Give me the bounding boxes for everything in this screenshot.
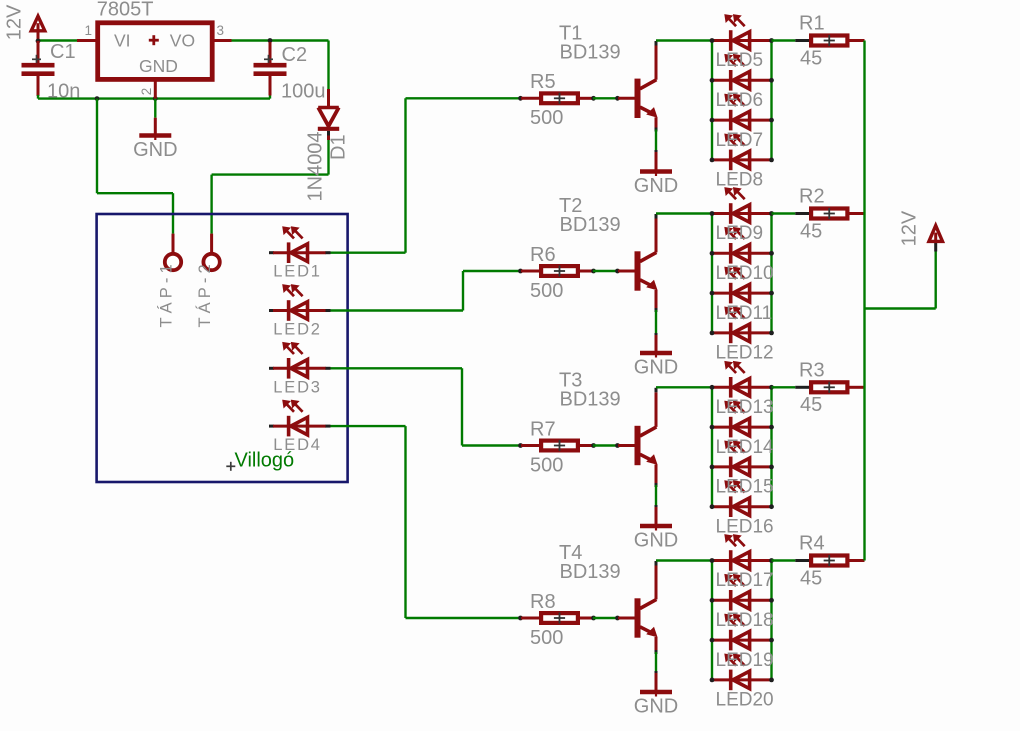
svg-text:LED14: LED14 <box>716 437 775 458</box>
svg-text:LED2: LED2 <box>273 321 321 339</box>
svg-text:LED18: LED18 <box>716 610 774 631</box>
svg-text:LED16: LED16 <box>716 516 774 537</box>
svg-text:12V: 12V <box>899 210 921 246</box>
svg-text:12V: 12V <box>4 4 26 40</box>
svg-text:VO: VO <box>170 30 195 50</box>
svg-text:BD139: BD139 <box>560 561 621 583</box>
svg-text:R1: R1 <box>799 13 825 35</box>
svg-text:100u: 100u <box>281 81 326 103</box>
svg-text:R5: R5 <box>530 71 556 93</box>
svg-text:GND: GND <box>139 56 178 76</box>
svg-text:TÁP-1: TÁP-1 <box>157 260 176 327</box>
svg-text:BD139: BD139 <box>560 389 621 411</box>
svg-text:45: 45 <box>800 567 822 589</box>
svg-text:LED1: LED1 <box>273 263 321 281</box>
svg-text:R2: R2 <box>799 186 825 208</box>
svg-text:R6: R6 <box>530 244 556 266</box>
svg-text:45: 45 <box>800 394 822 416</box>
svg-text:2: 2 <box>139 88 154 96</box>
svg-text:GND: GND <box>133 139 177 161</box>
svg-text:7805T: 7805T <box>97 0 154 21</box>
svg-text:1: 1 <box>84 23 92 38</box>
svg-text:45: 45 <box>800 220 822 242</box>
svg-text:VI: VI <box>114 30 131 50</box>
svg-text:500: 500 <box>530 454 563 476</box>
svg-text:BD139: BD139 <box>560 214 621 236</box>
svg-text:10n: 10n <box>47 81 80 103</box>
svg-text:R8: R8 <box>530 591 556 613</box>
svg-text:LED9: LED9 <box>716 223 764 244</box>
svg-text:R3: R3 <box>799 359 825 381</box>
svg-text:C1: C1 <box>50 41 76 63</box>
svg-text:GND: GND <box>634 356 678 378</box>
svg-text:LED20: LED20 <box>716 690 774 711</box>
svg-text:LED10: LED10 <box>716 263 774 284</box>
svg-text:LED3: LED3 <box>273 378 321 396</box>
svg-text:LED5: LED5 <box>716 50 764 71</box>
svg-text:500: 500 <box>530 280 563 302</box>
svg-text:LED13: LED13 <box>716 397 774 418</box>
svg-text:LED17: LED17 <box>716 570 774 591</box>
svg-text:BD139: BD139 <box>560 41 621 63</box>
svg-text:3: 3 <box>217 23 225 38</box>
svg-text:D1: D1 <box>327 134 349 160</box>
svg-text:LED8: LED8 <box>716 170 764 191</box>
svg-text:LED7: LED7 <box>716 130 764 151</box>
svg-text:1N4004: 1N4004 <box>304 131 326 201</box>
svg-text:R4: R4 <box>799 533 825 555</box>
svg-text:LED15: LED15 <box>716 477 774 498</box>
svg-text:GND: GND <box>634 529 678 551</box>
svg-text:LED19: LED19 <box>716 650 774 671</box>
svg-text:LED6: LED6 <box>716 90 764 111</box>
svg-text:GND: GND <box>634 695 678 717</box>
svg-text:LED11: LED11 <box>716 303 773 324</box>
svg-text:GND: GND <box>634 175 678 197</box>
svg-text:500: 500 <box>530 627 563 649</box>
svg-text:LED4: LED4 <box>273 436 321 454</box>
svg-text:R7: R7 <box>530 418 556 440</box>
svg-text:45: 45 <box>800 47 822 69</box>
svg-text:LED12: LED12 <box>716 343 774 364</box>
svg-text:C2: C2 <box>282 44 308 66</box>
svg-text:500: 500 <box>530 107 563 129</box>
svg-text:TÁP-2: TÁP-2 <box>195 260 214 327</box>
